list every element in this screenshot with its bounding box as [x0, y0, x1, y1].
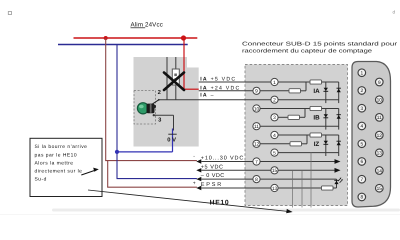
svg-text:IZ: IZ — [314, 141, 320, 148]
svg-text:10: 10 — [254, 106, 260, 112]
svg-text:EPSR: EPSR — [201, 182, 223, 188]
svg-text:11: 11 — [377, 115, 382, 121]
svg-text:12: 12 — [377, 133, 383, 139]
svg-text:directement sur le: directement sur le — [35, 169, 83, 175]
svg-text:+5 VDC: +5 VDC — [201, 164, 224, 170]
svg-text:13: 13 — [377, 151, 383, 157]
svg-text:3: 3 — [273, 115, 276, 121]
svg-text:HE10: HE10 — [210, 199, 230, 206]
svg-text:9: 9 — [255, 89, 258, 95]
svg-text:15: 15 — [272, 168, 278, 174]
svg-text:+10...30 VDC: +10...30 VDC — [201, 156, 244, 162]
svg-text:Alors la mettre: Alors la mettre — [35, 160, 74, 166]
svg-text:6: 6 — [360, 159, 363, 165]
svg-text:4: 4 — [273, 133, 276, 139]
svg-text:2: 2 — [158, 89, 161, 96]
svg-text:IB: IB — [313, 115, 320, 122]
svg-text:IA –: IA – — [200, 92, 215, 98]
svg-text:8: 8 — [255, 177, 258, 183]
svg-text:15: 15 — [377, 186, 383, 192]
svg-text:13: 13 — [272, 186, 278, 192]
svg-text:5: 5 — [273, 150, 276, 156]
svg-text:+: + — [193, 181, 196, 187]
svg-text:10: 10 — [377, 97, 383, 103]
svg-text:IA: IA — [313, 88, 320, 95]
svg-text:12: 12 — [254, 142, 260, 148]
svg-text:pas par le HE10: pas par le HE10 — [35, 152, 78, 158]
svg-text:Connecteur SUB-D 15 points sta: Connecteur SUB-D 15 points standard pour — [242, 41, 397, 47]
svg-text:1: 1 — [360, 70, 363, 76]
svg-text:7: 7 — [255, 159, 258, 165]
svg-text:raccordement du capteur de com: raccordement du capteur de comptage — [242, 48, 372, 54]
svg-text:Si la bourre n’arrive: Si la bourre n’arrive — [35, 144, 88, 150]
svg-text:8: 8 — [360, 195, 363, 201]
svg-text:1: 1 — [273, 80, 276, 86]
svg-text:14: 14 — [377, 168, 383, 174]
svg-text:0 V: 0 V — [167, 136, 176, 143]
svg-text:7: 7 — [360, 177, 363, 183]
svg-text:Su-d: Su-d — [35, 177, 47, 183]
svg-text:5: 5 — [360, 141, 363, 147]
svg-text:3: 3 — [360, 106, 363, 112]
svg-text:4: 4 — [360, 124, 363, 130]
svg-text:2: 2 — [360, 88, 363, 94]
svg-text:11: 11 — [254, 124, 259, 130]
svg-text:– 0 VDC: – 0 VDC — [201, 173, 225, 179]
svg-text:2: 2 — [273, 97, 276, 103]
svg-text:9: 9 — [378, 80, 381, 86]
